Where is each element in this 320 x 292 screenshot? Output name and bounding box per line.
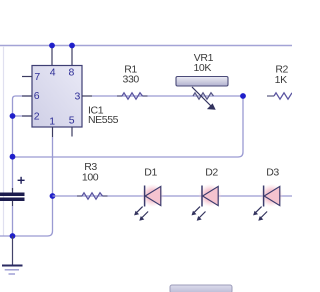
capacitor C1 positive lead: [12, 188, 14, 193]
svg-text:6: 6: [34, 90, 40, 102]
junction dot VR1/R2: [240, 93, 246, 99]
wire pin 6 to left node: [13, 96, 33, 116]
op-amp? no: IC U1 body NE555: [32, 66, 82, 128]
LED D1: [134, 184, 164, 221]
resistor R1: [117, 93, 148, 99]
scrollbar thumb bottom: [170, 285, 232, 292]
resistor R2: [267, 93, 292, 99]
capacitor C1 plus sign: [18, 177, 25, 184]
wire left node down to cap: [12, 116, 14, 191]
wire rail to pin 8: [71, 46, 73, 67]
wire LED row: [53, 195, 293, 197]
svg-text:10K: 10K: [193, 62, 211, 74]
svg-text:5: 5: [69, 115, 75, 127]
svg-text:7: 7: [34, 71, 40, 83]
capacitor C1 negative lead: [12, 201, 14, 206]
svg-text:NE555: NE555: [88, 114, 119, 126]
capacitor C1 top plate: [0, 193, 25, 197]
wire faint left vertical: [3, 46, 5, 236]
pin stub 2: [22, 115, 32, 117]
LED D2: [192, 184, 222, 221]
svg-text:D3: D3: [266, 166, 279, 178]
junction dot ground node: [10, 233, 16, 239]
resistor R3: [77, 193, 108, 199]
svg-text:8: 8: [69, 67, 75, 79]
wire rail to pin 4: [51, 46, 53, 67]
junction dot rail pin8: [69, 43, 75, 49]
pin stub 7: [22, 76, 32, 78]
svg-text:100: 100: [82, 171, 99, 183]
ground symbol: [2, 266, 23, 275]
wire pin 2 to left node: [13, 115, 33, 117]
junction dot rail pin4: [49, 43, 55, 49]
capacitor C1 bottom plate: [0, 198, 25, 202]
svg-text:2: 2: [34, 110, 40, 122]
wire ground rail bottom: [0, 196, 53, 236]
wire feedback node to VR1/R2 junction: [13, 96, 244, 157]
junction dot pin2 node: [10, 113, 16, 119]
pin stub 3: [82, 95, 92, 97]
wire cap to ground node: [12, 206, 14, 236]
pin stub 1: [52, 127, 54, 137]
pin stub 6: [22, 95, 32, 97]
potentiometer VR1 wiper arrow: [192, 87, 216, 110]
svg-text:330: 330: [123, 74, 140, 86]
wire ground stub: [12, 236, 14, 265]
junction dot feedback node: [10, 154, 16, 160]
junction dot R3 node: [50, 193, 56, 199]
svg-text:1K: 1K: [275, 74, 287, 86]
svg-text:D2: D2: [205, 166, 218, 178]
potentiometer VR1 resistor element: [193, 93, 214, 99]
potentiometer VR1 body: [176, 77, 228, 87]
wire pin3 to R2: [92, 95, 243, 97]
wire VCC top rail: [0, 45, 292, 47]
svg-text:D1: D1: [144, 166, 157, 178]
pin stub 5: [71, 127, 73, 137]
svg-text:1: 1: [49, 116, 55, 128]
svg-text:4: 4: [50, 67, 56, 79]
wire pin1 down to LED return: [52, 137, 54, 196]
svg-text:3: 3: [75, 90, 81, 102]
LED D3: [253, 184, 283, 221]
